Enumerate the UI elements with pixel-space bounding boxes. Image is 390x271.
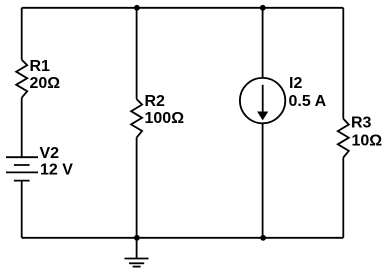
svg-text:R3: R3 bbox=[351, 115, 372, 132]
svg-text:I2: I2 bbox=[289, 75, 302, 92]
svg-text:R2: R2 bbox=[145, 93, 166, 110]
svg-text:R1: R1 bbox=[30, 58, 51, 75]
svg-text:0.5 A: 0.5 A bbox=[289, 93, 327, 110]
svg-text:12 V: 12 V bbox=[40, 162, 73, 179]
svg-text:V2: V2 bbox=[40, 145, 60, 162]
svg-text:20Ω: 20Ω bbox=[30, 75, 61, 92]
svg-text:10Ω: 10Ω bbox=[352, 133, 383, 150]
svg-text:100Ω: 100Ω bbox=[145, 110, 185, 127]
